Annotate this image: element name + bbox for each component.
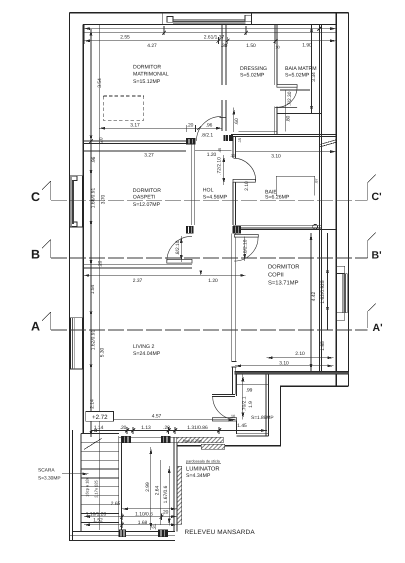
svg-text:HOL: HOL [203, 188, 214, 194]
dim row2 top line [84, 32, 336, 34]
dim vline niche door [242, 374, 244, 419]
fixture shower baie [276, 176, 315, 196]
svg-text:.31: .31 [152, 523, 158, 530]
glass band luminator right [177, 466, 181, 524]
room label copii [268, 264, 299, 287]
door D2 baia-matrm arc [277, 87, 297, 107]
door D6 niche leaf [212, 418, 236, 421]
window left2 glazing [73, 318, 75, 369]
svg-text:1.68: 1.68 [138, 520, 148, 526]
svg-text:.60: .60 [234, 118, 240, 125]
dim line 2.10 copii [267, 357, 334, 359]
svg-text:4.42: 4.42 [311, 291, 317, 301]
wall niche left [236, 374, 238, 434]
pilaster a matrimonial door [186, 138, 195, 144]
svg-text:3.34: 3.34 [311, 72, 317, 82]
wire inner top wall [83, 24, 336, 26]
svg-text:3.54: 3.54 [97, 78, 103, 88]
svg-text:3.10: 3.10 [279, 360, 289, 366]
svg-text:2.14: 2.14 [90, 399, 96, 409]
svg-text:.20: .20 [163, 425, 170, 431]
svg-text:3.10: 3.10 [271, 154, 281, 160]
wall luminator right [174, 437, 177, 531]
svg-text:.72/2.10: .72/2.10 [217, 157, 223, 175]
svg-text:2.17x 025: 2.17x 025 [94, 479, 99, 497]
wall bottom band [70, 532, 176, 541]
svg-text:.10: .10 [230, 414, 236, 419]
svg-text:C: C [31, 190, 40, 204]
wire outer top wall [70, 12, 349, 14]
svg-text:S=13.71MP: S=13.71MP [268, 280, 299, 287]
svg-text:MATRIMONIAL: MATRIMONIAL [133, 72, 169, 78]
svg-text:.20: .20 [98, 260, 104, 267]
svg-text:16cp x 18x: 16cp x 18x [85, 477, 90, 496]
pilaster g luminator top-mid [161, 436, 171, 443]
svg-text:.7/2.30: .7/2.30 [287, 91, 293, 106]
wall niche right [266, 374, 268, 436]
dim line 3.10 baie [236, 151, 336, 153]
svg-text:.20: .20 [187, 123, 194, 129]
svg-text:LIVING 2: LIVING 2 [133, 344, 154, 350]
svg-text:2.64: 2.64 [155, 485, 161, 495]
wire inner right wall [335, 13, 337, 386]
dim vline luminator 2.99 [150, 447, 152, 530]
arrow dim 3.10 baie [330, 150, 336, 153]
stairs break diagonal [84, 439, 102, 450]
svg-text:1.52: 1.52 [93, 517, 103, 523]
wire inner left wall [82, 25, 84, 433]
dim vline baia 3.34 [311, 25, 313, 113]
svg-text:5.30: 5.30 [100, 347, 106, 357]
door D3 baie leaf [233, 179, 255, 182]
dim vline baia .80 [280, 90, 310, 132]
svg-text:pardoseala de sticla: pardoseala de sticla [186, 460, 221, 464]
svg-text:S=4.56MP: S=4.56MP [203, 195, 228, 201]
wall living bottom door header [212, 395, 235, 397]
dim vline stairs 2.14 [90, 398, 92, 431]
wire window top left post [161, 12, 163, 25]
room label baie [265, 189, 290, 200]
svg-text:.20: .20 [98, 137, 104, 144]
wall matrimonial/oaspeti [83, 141, 186, 144]
symbol break right wall [319, 140, 336, 147]
svg-text:hpar./1.25m: hpar./1.25m [183, 439, 202, 443]
svg-text:RELEVEU MANSARDA: RELEVEU MANSARDA [185, 529, 256, 536]
wall baie top [231, 134, 336, 136]
svg-text:BAIA MATRM: BAIA MATRM [285, 66, 317, 72]
svg-text:COPII: COPII [268, 272, 284, 279]
wall oaspeti/living [83, 264, 192, 268]
leader scara [62, 473, 89, 475]
window top glazing [173, 20, 246, 24]
svg-text:S=12.07MP: S=12.07MP [133, 202, 161, 208]
room label matrimonial [133, 65, 169, 86]
dim row3 top line [84, 40, 336, 42]
svg-text:2.55: 2.55 [120, 34, 130, 40]
dim vline left x91 [90, 29, 92, 437]
wire stairs left edge [80, 434, 82, 532]
dim vline copii window [327, 233, 329, 330]
window left1 frame [70, 176, 82, 227]
dim row extension ticks top [84, 25, 336, 44]
svg-text:1.66/0.91: 1.66/0.91 [91, 188, 97, 209]
wire inner left wall lower [72, 430, 74, 541]
svg-text:3.70: 3.70 [101, 194, 107, 204]
svg-text:.8/2.10: .8/2.10 [175, 240, 181, 255]
svg-text:SCARA: SCARA [38, 468, 55, 474]
dim vline copii door [244, 237, 246, 262]
wire right lower step [177, 386, 349, 446]
svg-text:1.20: 1.20 [207, 152, 217, 158]
svg-text:1.10/0.6: 1.10/0.6 [135, 512, 153, 518]
door D5 copii leaf [234, 235, 258, 238]
arrow 3.17 end [216, 127, 222, 130]
level marker box [86, 412, 114, 422]
svg-text:2.10: 2.10 [295, 351, 305, 357]
room label oaspeti [133, 188, 161, 208]
svg-text:2.61/1.37: 2.61/1.37 [204, 34, 225, 40]
svg-text:LUMINATOR: LUMINATOR [186, 465, 220, 472]
svg-text:2.65: 2.65 [111, 501, 121, 507]
wall living bottom band [119, 437, 177, 443]
pilaster b dressing corner [224, 135, 234, 141]
svg-text:.8/2.10: .8/2.10 [242, 239, 248, 254]
svg-text:3.17: 3.17 [130, 123, 140, 129]
svg-text:1.13: 1.13 [141, 425, 151, 431]
wall dressing/baia-matrm [275, 25, 277, 135]
door D4 oaspeti arc [167, 236, 192, 261]
section flag C right [368, 175, 376, 201]
pilaster i bottom band right [158, 530, 168, 538]
room label baia matrm [285, 66, 317, 79]
svg-text:1.45: 1.45 [237, 423, 247, 429]
window right jamb bottom [337, 313, 345, 320]
svg-text:.20: .20 [120, 425, 127, 431]
svg-text:.10: .10 [274, 44, 280, 49]
svg-text:1.85: 1.85 [320, 341, 326, 351]
section line C-C' [51, 199, 368, 201]
svg-text:3.27: 3.27 [144, 153, 154, 159]
window left1 jamb top [72, 176, 77, 180]
svg-text:S=1.89MP: S=1.89MP [251, 415, 274, 421]
svg-text:1.31/0.86: 1.31/0.86 [187, 425, 208, 431]
wire window top right post [251, 13, 253, 25]
svg-text:1.50: 1.50 [246, 43, 256, 49]
svg-text:.20: .20 [162, 510, 169, 516]
svg-text:.96: .96 [91, 156, 97, 163]
dim row1 top line [84, 28, 336, 30]
pilaster f luminator top-left [122, 436, 131, 443]
svg-text:4.27: 4.27 [147, 43, 157, 49]
dim line dressing bottom [239, 131, 277, 133]
svg-text:S=3.30MP: S=3.30MP [38, 476, 61, 482]
glass parapet band top [177, 437, 223, 443]
dim line 3.27 oaspeti [83, 150, 186, 152]
room label scara [38, 468, 61, 482]
svg-text:.80: .80 [286, 115, 292, 122]
svg-text:4.57: 4.57 [152, 414, 162, 420]
dim line 3.17 matrimonial [99, 125, 222, 132]
pilaster d hol bottom-right [233, 226, 242, 234]
svg-text:S=5.02MP: S=5.02MP [240, 73, 265, 79]
section flag A right [368, 303, 376, 328]
section flag C left [42, 181, 51, 200]
svg-text:DORMITOR: DORMITOR [133, 188, 161, 194]
pilaster h bottom band left [119, 530, 127, 538]
svg-text:B': B' [372, 250, 382, 262]
svg-text:.8/2.1: .8/2.1 [201, 132, 214, 138]
section flag A left [42, 312, 51, 330]
wall stairs/luminator [119, 436, 122, 531]
svg-text:DORMITOR: DORMITOR [133, 65, 161, 71]
wall baie/copii [233, 225, 322, 228]
door D6 niche arc [213, 397, 236, 420]
window right glazing [343, 274, 348, 313]
svg-text:1.10/1.20: 1.10/1.20 [86, 511, 107, 517]
wall baia-matrm bottom [277, 112, 322, 114]
furniture bed dashed [103, 96, 143, 120]
svg-text:1.54: 1.54 [90, 284, 96, 294]
svg-text:C': C' [372, 191, 382, 203]
wall interior right shaft [319, 25, 321, 372]
svg-text:B: B [31, 248, 40, 262]
wall baie left [233, 137, 235, 225]
dim vline luminator 2.64 [160, 460, 162, 525]
dim row bottom line [91, 427, 267, 434]
room label hol [203, 188, 228, 201]
door D3 baie arc [233, 158, 255, 180]
door D5 copii arc [234, 237, 258, 261]
svg-text:S=4.34MP: S=4.34MP [186, 473, 211, 479]
svg-text:1.9: 1.9 [248, 401, 254, 408]
dim line .99 niche [237, 382, 269, 388]
svg-text:1.20: 1.20 [208, 278, 218, 284]
section flag B left [42, 240, 51, 258]
dim vline luminator 1.67 [168, 466, 170, 526]
svg-text:S=5.02MP: S=5.02MP [285, 73, 310, 79]
wall oaspeti/hol [191, 143, 195, 225]
svg-text:.10: .10 [230, 153, 236, 158]
svg-text:.30: .30 [221, 43, 228, 49]
wire shaft bottom [233, 228, 336, 230]
window left1 glazing [72, 181, 75, 225]
section line B-B' [51, 257, 368, 259]
dim line 1.20 hol [195, 150, 232, 152]
stairs treads [81, 433, 119, 531]
wall living bottom-right jog [232, 362, 237, 395]
door D1 matrimonial arc [196, 116, 221, 140]
svg-text:S=15.12MP: S=15.12MP [133, 79, 161, 85]
svg-text:1.62/0.925: 1.62/0.925 [320, 280, 326, 303]
room label luminator [186, 460, 221, 480]
tick marks dims [89, 27, 321, 527]
fixture circle baie wall [313, 224, 318, 229]
dim vline hol door [223, 155, 225, 185]
pilaster c hol bottom-left [186, 226, 193, 234]
section line A-A' [51, 329, 368, 331]
svg-text:.45: .45 [217, 147, 222, 153]
svg-text:A': A' [373, 322, 383, 334]
wall copii bottom thick [235, 371, 349, 374]
dim line luminator 1.10 [84, 514, 177, 521]
dim line 2.37 1.20 living top [84, 274, 246, 276]
window right jamb top [337, 266, 345, 273]
wall living/copii [232, 234, 236, 362]
svg-text:DORMITOR: DORMITOR [268, 264, 299, 271]
dim vline oaspeti door [180, 236, 182, 262]
svg-text:.96: .96 [206, 123, 213, 129]
wire outer left wall [69, 13, 71, 541]
room label living [133, 344, 161, 357]
window top jamb left [167, 17, 173, 23]
svg-text:+2.72: +2.72 [92, 414, 108, 421]
glass parapet band step [201, 444, 225, 449]
section flag B right [368, 233, 376, 258]
svg-text:.15: .15 [238, 138, 242, 143]
svg-text:1.67/0.6: 1.67/0.6 [163, 485, 169, 503]
window top jamb right [245, 15, 252, 21]
dim line luminator 2.65 [122, 508, 177, 510]
dim line 4.57 [91, 419, 235, 421]
svg-text:DRESSING: DRESSING [240, 66, 267, 72]
door D1 matrimonial leaf tick [220, 117, 226, 119]
svg-text:2.10: 2.10 [244, 181, 250, 191]
svg-text:1.90: 1.90 [302, 42, 312, 48]
dim line 3.10 copii [235, 365, 333, 367]
window left2 frame [70, 318, 82, 369]
svg-text:2.37: 2.37 [133, 278, 143, 284]
svg-text:.70/2.1: .70/2.1 [242, 396, 248, 411]
svg-text:S=6.26MP: S=6.26MP [265, 195, 290, 201]
svg-text:.99: .99 [246, 388, 253, 394]
svg-text:1.62/0.91: 1.62/0.91 [91, 330, 97, 351]
dim line luminator 1.68 [84, 522, 177, 529]
wall niche bottom [237, 434, 269, 436]
wire baia door sill [275, 107, 297, 109]
window left1 jamb bottom [72, 222, 77, 227]
svg-text:2.99: 2.99 [145, 482, 151, 492]
door D2 baia-matrm leaf [277, 85, 297, 88]
dim vline copii 4.42 [310, 233, 312, 371]
svg-text:A: A [31, 320, 40, 334]
room label dressing [240, 66, 267, 79]
wall matrimonial/dressing [222, 25, 226, 131]
svg-text:OASPETI: OASPETI [133, 194, 156, 200]
svg-text:1.14: 1.14 [94, 425, 104, 431]
wire outer right wall [347, 13, 349, 387]
svg-text:.87: .87 [315, 178, 319, 183]
dim vline left x100 [98, 25, 100, 530]
arrowheads dims [84, 27, 90, 30]
dim vline dressing .60 [233, 108, 235, 132]
svg-text:S=24.04MP: S=24.04MP [133, 351, 161, 357]
door D4 oaspeti leaf [167, 259, 192, 263]
